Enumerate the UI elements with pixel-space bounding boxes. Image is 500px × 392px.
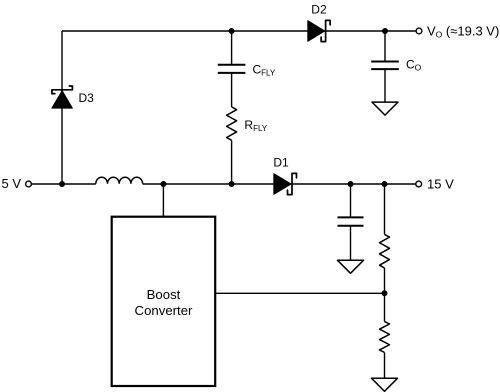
wire C_O to ground <box>384 69 386 102</box>
node junction 15V resistor <box>382 181 388 187</box>
terminal VO <box>416 28 422 34</box>
node junction switch node <box>160 181 166 187</box>
terminal 15V <box>416 181 422 187</box>
capacitor C_O <box>371 62 399 70</box>
wire 15V to feedback resistor <box>384 184 386 234</box>
node junction 5V/D3 <box>59 181 65 187</box>
inductor L1 <box>96 177 143 183</box>
wire cap to ground <box>350 226 352 261</box>
wire 15V cap branch <box>350 184 352 217</box>
diode D1 (Schottky, pointing right) <box>274 173 297 194</box>
wire C_O branch upper <box>384 31 386 62</box>
wire 5V terminal to inductor <box>32 183 96 185</box>
resistor R_FLY <box>227 107 237 140</box>
node junction 15V cap <box>348 181 354 187</box>
capacitor output 15V <box>338 217 364 225</box>
wire top rail <box>62 30 416 32</box>
ground under C_O <box>372 102 398 115</box>
resistor feedback upper <box>380 234 390 268</box>
diode D2 (Schottky, pointing right) <box>308 20 330 41</box>
diode D3 (Schottky, pointing up) <box>52 86 73 108</box>
wire switch node to box <box>162 184 164 217</box>
node junction top C_FLY <box>229 28 235 34</box>
node junction feedback <box>382 290 388 296</box>
svg-text:15 V: 15 V <box>427 176 454 191</box>
wire C_FLY branch upper <box>231 31 233 65</box>
wire resistor to ground <box>384 353 386 379</box>
svg-text:D3: D3 <box>79 91 95 105</box>
wire resistor to feedback node <box>384 268 386 321</box>
ground under 15V cap <box>338 260 364 273</box>
svg-text:D2: D2 <box>311 3 327 17</box>
svg-text:D1: D1 <box>273 156 289 170</box>
box Boost Converter U1 <box>112 217 216 386</box>
wire inductor to D1 <box>143 183 274 185</box>
wire between C_FLY and R_FLY <box>231 73 233 107</box>
svg-text:5 V: 5 V <box>2 176 22 191</box>
svg-text:Boost: Boost <box>147 287 181 302</box>
resistor feedback lower <box>380 321 390 352</box>
node junction R_FLY bottom <box>229 181 235 187</box>
node junction top C_O <box>382 28 388 34</box>
ground bottom right <box>372 378 398 391</box>
wire feedback from box <box>215 292 384 294</box>
wire R_FLY to 5V rail <box>231 140 233 184</box>
terminal 5V <box>26 181 32 187</box>
svg-text:Converter: Converter <box>135 303 194 318</box>
capacitor C_FLY <box>218 65 246 73</box>
wire left vertical from 5V rail up to top rail <box>61 31 63 184</box>
wire D1 to 15V terminal <box>292 183 416 185</box>
